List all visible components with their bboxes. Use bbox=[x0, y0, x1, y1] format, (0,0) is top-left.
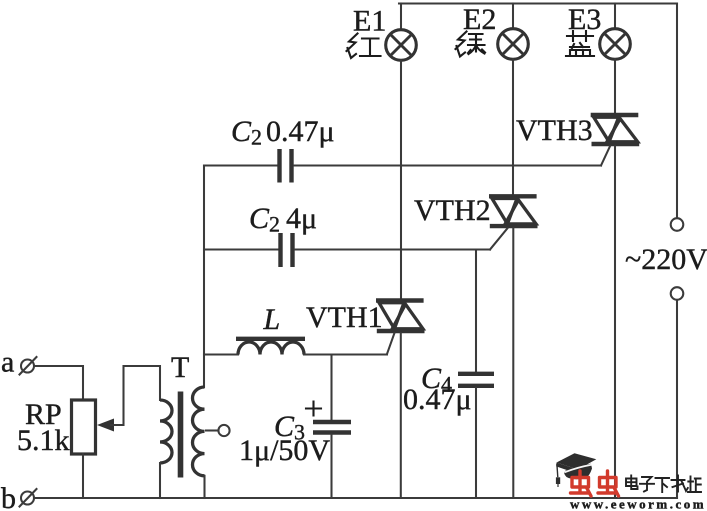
terminal ~220V lower bbox=[671, 287, 684, 300]
wire top bus bbox=[399, 2, 677, 4]
RP wiper arrow bbox=[97, 366, 160, 432]
capacitor C3 bbox=[313, 422, 351, 433]
svg-text:2: 2 bbox=[269, 212, 280, 237]
svg-text:VTH3: VTH3 bbox=[516, 114, 593, 147]
wire C2b left bbox=[204, 248, 278, 250]
label C3 plus bbox=[306, 402, 321, 416]
wire C2a left bbox=[204, 164, 277, 166]
terminal b bbox=[20, 489, 37, 507]
svg-text:a: a bbox=[1, 346, 14, 379]
logo chongchong red characters bbox=[571, 471, 619, 496]
capacitor C4 bbox=[458, 374, 494, 386]
label green char bbox=[456, 32, 486, 57]
capacitor C2 4u bbox=[281, 233, 293, 267]
lamp E2 bbox=[498, 4, 529, 60]
wire E1 column lower bbox=[400, 333, 402, 498]
wire a to RP bbox=[34, 366, 83, 400]
wire C2a right to VTH3 gate bbox=[294, 164, 601, 166]
terminal ~220V upper bbox=[671, 218, 684, 231]
svg-text:E2: E2 bbox=[463, 3, 496, 36]
transformer T secondary winding bbox=[193, 387, 205, 476]
label C2 0.47u bbox=[231, 115, 335, 150]
lamp E1 bbox=[386, 4, 417, 61]
wire right vertical upper bbox=[676, 4, 678, 219]
logo text dianzi xiazaizhan bbox=[626, 476, 701, 493]
lamp E3 bbox=[600, 4, 631, 60]
svg-text:5.1k: 5.1k bbox=[17, 424, 70, 457]
svg-text:4μ: 4μ bbox=[286, 202, 317, 235]
wire bottom bus bbox=[34, 497, 677, 499]
capacitor C2 0.47u bbox=[280, 149, 292, 183]
wire RP bottom bbox=[82, 454, 84, 498]
wire right vertical lower bbox=[676, 300, 678, 498]
svg-text:T: T bbox=[171, 351, 189, 384]
label C3 bbox=[239, 410, 330, 467]
svg-text:VTH2: VTH2 bbox=[414, 194, 491, 227]
label red char bbox=[347, 34, 381, 59]
wire secondary bottom bbox=[203, 476, 205, 498]
transformer T core bbox=[178, 392, 184, 478]
svg-text:2: 2 bbox=[251, 125, 262, 150]
wire C4 lower bbox=[475, 388, 477, 498]
wire E1 column bbox=[400, 60, 402, 299]
svg-text:b: b bbox=[1, 482, 16, 511]
wire E3 column upper bbox=[614, 59, 616, 115]
secondary center tap bbox=[206, 425, 230, 436]
svg-text:0.47μ: 0.47μ bbox=[266, 115, 335, 148]
label C4 bbox=[403, 362, 472, 416]
inductor L core bar bbox=[236, 337, 305, 341]
svg-text:C: C bbox=[249, 202, 270, 235]
label C2 4u bbox=[249, 202, 317, 237]
svg-text:C: C bbox=[231, 115, 252, 148]
triac VTH2 bbox=[489, 196, 538, 249]
wire C2b right to VTH2 gate bbox=[295, 248, 490, 250]
wire C3 lower bbox=[330, 435, 332, 499]
svg-text:~220V: ~220V bbox=[625, 243, 707, 276]
svg-text:1μ/50V: 1μ/50V bbox=[239, 434, 330, 467]
wire E2 column lower bbox=[512, 228, 514, 498]
wire L left bbox=[204, 353, 238, 355]
terminal a bbox=[20, 357, 37, 375]
svg-text:VTH1: VTH1 bbox=[306, 301, 383, 334]
wire left vertical node bbox=[203, 166, 205, 388]
svg-text:L: L bbox=[263, 303, 281, 336]
wire C3 upper bbox=[330, 355, 332, 421]
wire L right to VTH1 gate bbox=[304, 353, 387, 355]
wire primary bottom bbox=[159, 463, 161, 498]
triac VTH1 bbox=[376, 301, 425, 355]
triac VTH3 bbox=[591, 115, 640, 166]
wire E3 column lower bbox=[614, 146, 616, 498]
wire C4 upper bbox=[475, 250, 477, 373]
logo graduation cap bbox=[556, 453, 596, 487]
inductor L bbox=[238, 342, 304, 355]
svg-text:www.eeworm.com: www.eeworm.com bbox=[570, 497, 706, 511]
potentiometer RP bbox=[72, 400, 96, 454]
transformer T primary winding bbox=[160, 400, 172, 463]
label blue char bbox=[566, 31, 594, 56]
wire E2 column upper bbox=[512, 59, 514, 194]
